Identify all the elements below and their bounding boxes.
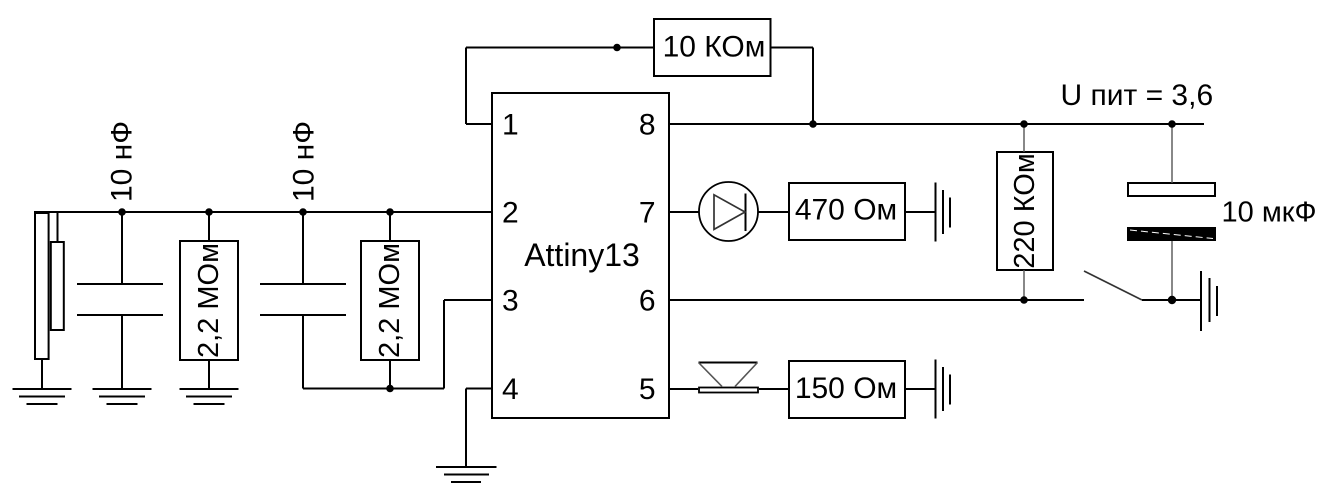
svg-text:150 Ом: 150 Ом: [795, 372, 897, 405]
svg-text:U пит = 3,6: U пит = 3,6: [1061, 79, 1214, 112]
svg-text:10 мкФ: 10 мкФ: [1222, 197, 1317, 229]
svg-text:2,2 МОм: 2,2 МОм: [193, 243, 225, 358]
svg-text:6: 6: [639, 285, 656, 318]
svg-text:10 КОм: 10 КОм: [663, 31, 766, 64]
svg-text:1: 1: [502, 109, 519, 142]
svg-text:2,2 МОм: 2,2 МОм: [374, 243, 406, 358]
svg-text:7: 7: [639, 197, 656, 230]
svg-text:4: 4: [502, 373, 519, 406]
svg-text:220 КОм: 220 КОм: [1009, 153, 1041, 269]
svg-text:470 Ом: 470 Ом: [795, 194, 897, 227]
svg-text:10 нФ: 10 нФ: [106, 121, 139, 202]
svg-text:8: 8: [639, 109, 656, 142]
svg-text:Attiny13: Attiny13: [524, 237, 640, 273]
svg-text:10 нФ: 10 нФ: [287, 121, 320, 202]
svg-text:2: 2: [502, 197, 519, 230]
svg-text:5: 5: [639, 373, 656, 406]
svg-text:3: 3: [502, 285, 519, 318]
